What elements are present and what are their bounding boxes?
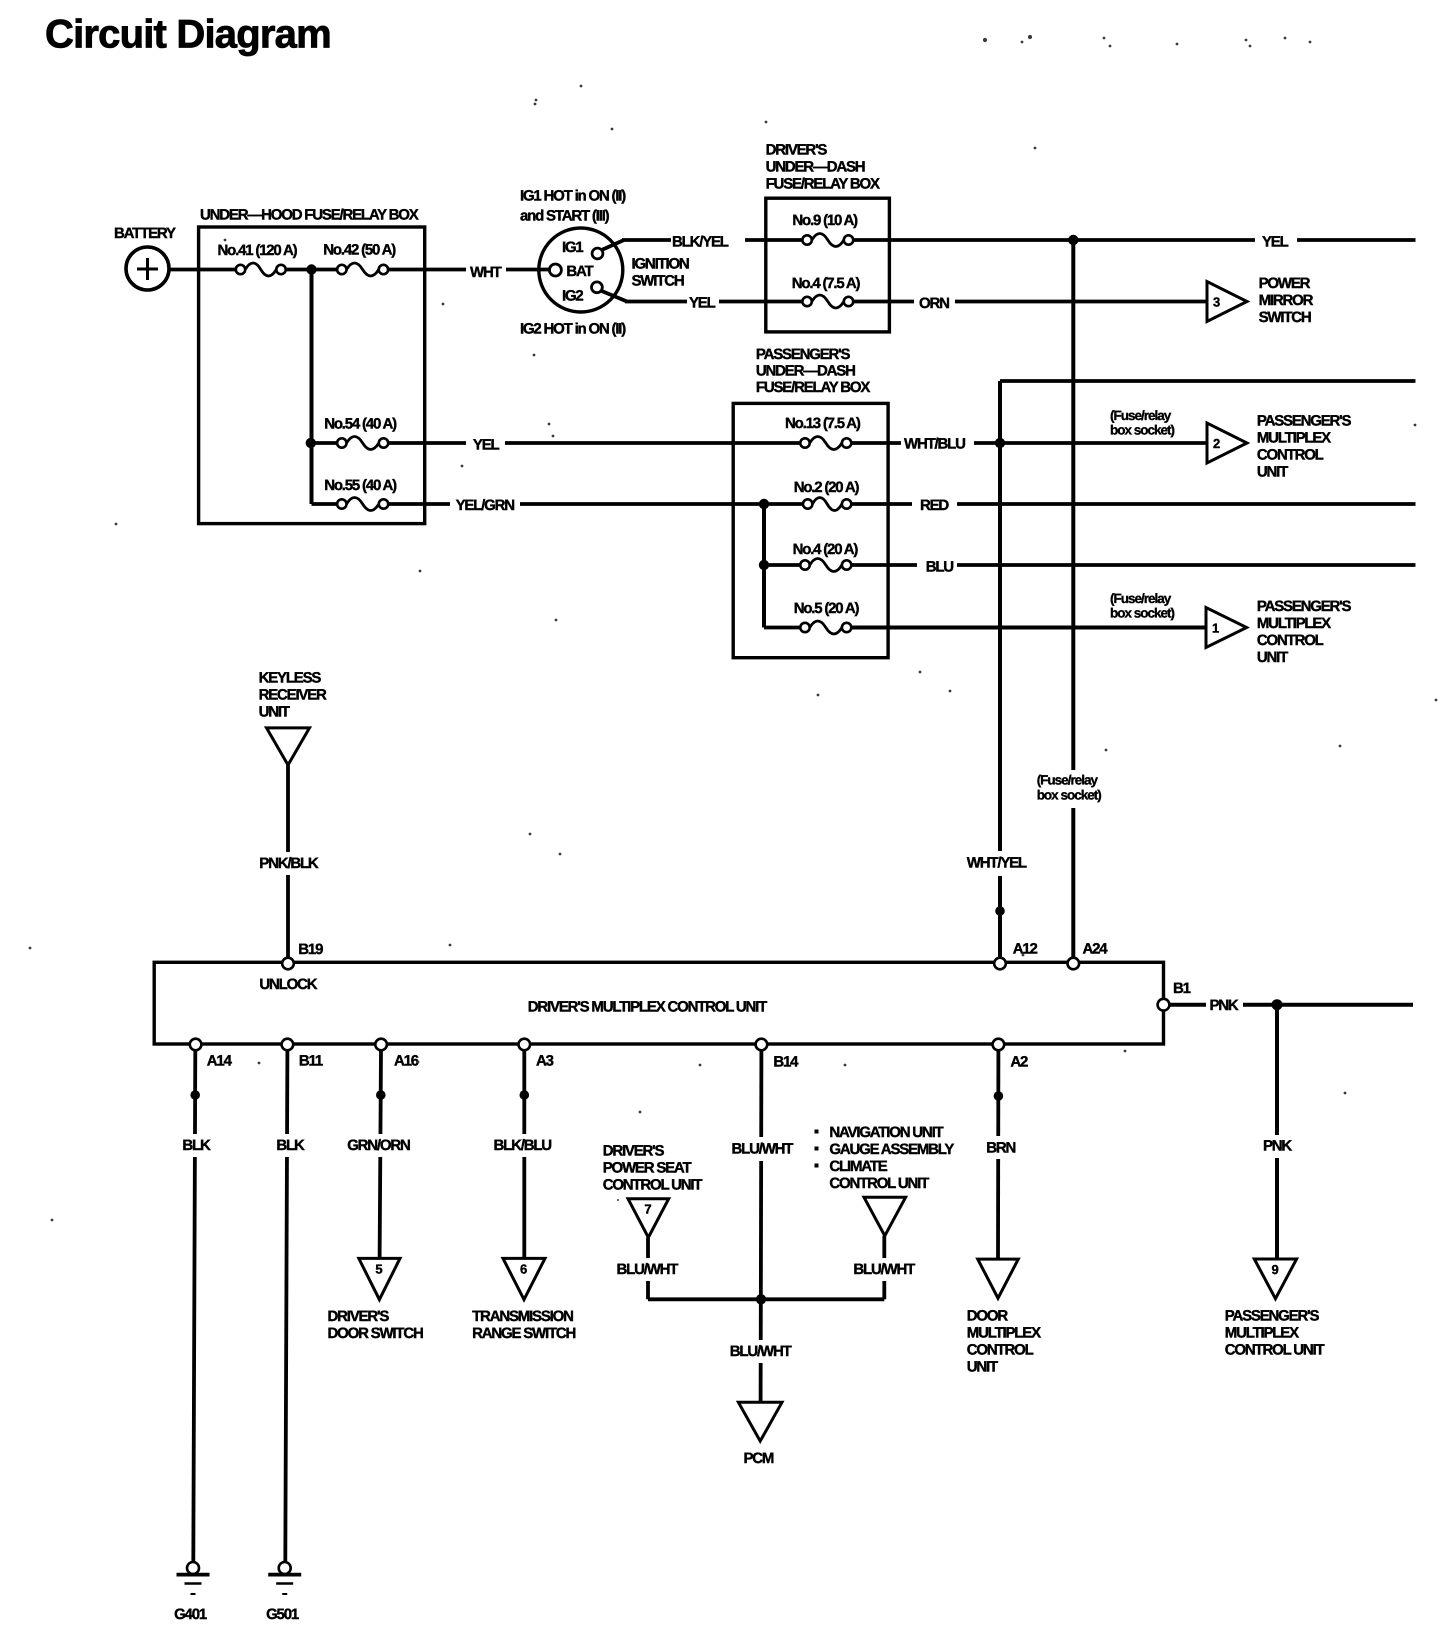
svg-text:FUSE/RELAY BOX: FUSE/RELAY BOX: [756, 379, 870, 396]
wire PNK vertical to triangle 9: [1275, 1005, 1279, 1260]
svg-text:PNK: PNK: [1210, 997, 1239, 1014]
svg-text:A14: A14: [207, 1052, 233, 1069]
connector B11: [282, 1039, 294, 1051]
connector A24: [1068, 958, 1080, 970]
PCM triangle: [738, 1402, 782, 1441]
svg-text:MIRROR: MIRROR: [1259, 292, 1314, 309]
svg-text:BATTERY: BATTERY: [114, 225, 176, 242]
wire horizontal y381 to right edge: [1000, 379, 1416, 383]
triangle 3 power mirror switch: [1207, 282, 1247, 322]
svg-text:CONTROL UNIT: CONTROL UNIT: [1225, 1341, 1325, 1358]
wire IG2 to YEL label: [625, 300, 687, 304]
wire bus to fuse No.5: [764, 626, 800, 630]
connector A16: [375, 1039, 387, 1051]
svg-text:PASSENGER'S: PASSENGER'S: [1257, 598, 1352, 615]
connector A12: [994, 958, 1006, 970]
wire A16 to triangle 5: [380, 1050, 381, 1259]
node junction A2: [994, 1091, 1004, 1101]
svg-text:BLU/WHT: BLU/WHT: [732, 1140, 794, 1157]
svg-text:No.9 (10 A): No.9 (10 A): [792, 212, 858, 229]
svg-text:2: 2: [1213, 436, 1220, 451]
svg-text:IG1 HOT in ON (II): IG1 HOT in ON (II): [520, 187, 626, 204]
svg-text:6: 6: [520, 1261, 527, 1276]
wire fuse No.4 to BLU label: [851, 563, 917, 567]
svg-text:YEL: YEL: [1262, 234, 1289, 251]
svg-text:UNDER—DASH: UNDER—DASH: [766, 159, 865, 176]
svg-text:B11: B11: [299, 1052, 323, 1069]
wire WHT/BLU label to triangle 2: [974, 441, 1207, 445]
svg-text:No.42 (50 A): No.42 (50 A): [323, 241, 396, 258]
wire fuse No.4 to ORN label: [853, 300, 914, 304]
svg-text:1: 1: [1212, 621, 1219, 636]
wire IG1 to BLK/YEL label: [622, 238, 671, 242]
svg-text:CONTROL UNIT: CONTROL UNIT: [829, 1175, 929, 1192]
triangle 2 passenger's multiplex control unit: [1207, 423, 1247, 463]
connector A14: [190, 1039, 202, 1051]
svg-text:CONTROL UNIT: CONTROL UNIT: [603, 1177, 703, 1194]
svg-text:CONTROL: CONTROL: [967, 1342, 1034, 1359]
svg-text:PASSENGER'S: PASSENGER'S: [756, 346, 851, 363]
wire bus to fuse No.54: [312, 441, 338, 445]
wire YEL label to fuse No.13: [505, 441, 800, 445]
node junction WHT/BLU: [995, 438, 1005, 448]
svg-text:PNK/BLK: PNK/BLK: [259, 855, 319, 872]
battery B1 positive terminal: [126, 247, 169, 290]
svg-text:Circuit Diagram: Circuit Diagram: [45, 13, 331, 57]
svg-text:IG2: IG2: [562, 287, 583, 304]
wire nav triangle to junction: [882, 1236, 886, 1300]
wire fuse No.41 to fuse No.42: [286, 268, 338, 272]
svg-text:DOOR SWITCH: DOOR SWITCH: [328, 1325, 423, 1342]
svg-text:POWER: POWER: [1259, 275, 1311, 292]
svg-text:BRN: BRN: [986, 1139, 1015, 1156]
svg-text:ORN: ORN: [919, 295, 949, 312]
wire IG1 diagonal: [601, 240, 625, 251]
svg-text:IG2 HOT in ON (II): IG2 HOT in ON (II): [520, 320, 626, 337]
node junction BLU/WHT: [756, 1294, 766, 1304]
triangle 1 passenger's multiplex control unit: [1206, 608, 1247, 648]
svg-text:PASSENGER'S: PASSENGER'S: [1257, 413, 1352, 430]
svg-text:DRIVER'S: DRIVER'S: [328, 1308, 390, 1325]
node junction PNK: [1272, 999, 1283, 1010]
svg-text:box socket): box socket): [1110, 422, 1175, 437]
svg-text:G401: G401: [174, 1606, 207, 1623]
svg-text:YEL: YEL: [689, 295, 716, 312]
svg-text:UNIT: UNIT: [967, 1359, 998, 1376]
svg-text:DRIVER'S MULTIPLEX CONTROL UNI: DRIVER'S MULTIPLEX CONTROL UNIT: [528, 998, 767, 1015]
svg-text:A2: A2: [1010, 1053, 1028, 1070]
fuse No.5 (20 A): [800, 621, 851, 634]
svg-text:WHT/BLU: WHT/BLU: [904, 435, 965, 452]
wire A2 to door multiplex triangle: [996, 1050, 1000, 1259]
svg-text:GAUGE ASSEMBLY: GAUGE ASSEMBLY: [829, 1141, 954, 1158]
svg-text:WHT/YEL: WHT/YEL: [967, 854, 1027, 871]
wire B14 down to PCM: [759, 1050, 764, 1402]
wire vertical fuse-relay-socket A24: [1071, 240, 1075, 958]
svg-text:DRIVER'S: DRIVER'S: [603, 1143, 665, 1160]
connector B1: [1158, 999, 1170, 1011]
svg-text:CONTROL: CONTROL: [1257, 632, 1324, 649]
svg-text:A24: A24: [1083, 941, 1109, 958]
node junction passenger box No.2: [759, 499, 769, 509]
wire fuse No.5 to triangle 1: [851, 626, 1206, 630]
svg-text:A3: A3: [536, 1052, 554, 1069]
svg-text:No.41 (120 A): No.41 (120 A): [218, 242, 298, 259]
svg-text:BLU: BLU: [926, 559, 954, 576]
wire fuse No.54 to YEL label: [388, 441, 466, 445]
keyless receiver unit triangle: [267, 728, 310, 765]
svg-text:CONTROL: CONTROL: [1257, 447, 1324, 464]
svg-text:MULTIPLEX: MULTIPLEX: [967, 1325, 1041, 1342]
connector A3: [519, 1039, 531, 1051]
wire RED label to right edge: [957, 502, 1416, 506]
svg-text:UNDER—DASH: UNDER—DASH: [756, 363, 855, 380]
svg-text:(Fuse/relay: (Fuse/relay: [1037, 773, 1099, 788]
wire fuse No.9 to YEL label: [853, 238, 1255, 242]
connector A2: [993, 1039, 1005, 1051]
wire vertical WHT/YEL A12: [998, 381, 1002, 958]
svg-text:BLK: BLK: [182, 1137, 211, 1154]
passenger's under-dash fuse/relay box: [733, 403, 888, 657]
label navigation gauge climate list: [815, 1130, 819, 1168]
triangle 7 driver's power seat control unit: [628, 1199, 669, 1238]
triangle 6 transmission range switch: [503, 1258, 545, 1299]
svg-text:DOOR: DOOR: [967, 1308, 1009, 1325]
fuse No.54 (40 A): [337, 437, 388, 450]
svg-text:GRN/ORN: GRN/ORN: [347, 1137, 410, 1154]
svg-text:BLK: BLK: [276, 1137, 305, 1154]
svg-text:YEL: YEL: [473, 436, 500, 453]
svg-text:BLU/WHT: BLU/WHT: [853, 1261, 915, 1278]
svg-text:IG1: IG1: [562, 239, 583, 256]
svg-text:No.55 (40 A): No.55 (40 A): [324, 477, 397, 494]
triangle 5 driver's door switch: [359, 1258, 400, 1299]
scan noise: [29, 35, 1438, 1222]
svg-text:(Fuse/relay: (Fuse/relay: [1110, 408, 1172, 423]
fuse No.41 (120 A): [236, 263, 286, 276]
ground G401: [177, 1562, 210, 1594]
node junction No.54: [306, 438, 316, 448]
svg-text:BAT: BAT: [566, 263, 593, 280]
svg-text:box socket): box socket): [1037, 788, 1102, 803]
svg-text:YEL/GRN: YEL/GRN: [456, 497, 515, 514]
svg-text:No.5 (20 A): No.5 (20 A): [794, 600, 860, 617]
wire fuse No.42 to WHT label: [388, 268, 466, 272]
svg-text:RED: RED: [920, 497, 949, 514]
node junction under-hood bus: [306, 264, 316, 274]
svg-text:PASSENGER'S: PASSENGER'S: [1225, 1307, 1320, 1324]
svg-text:MULTIPLEX: MULTIPLEX: [1257, 430, 1331, 447]
svg-text:G501: G501: [266, 1606, 299, 1623]
ignition switch: [539, 228, 623, 312]
wire ORN label to power mirror switch triangle: [955, 300, 1207, 304]
svg-text:RANGE SWITCH: RANGE SWITCH: [472, 1325, 575, 1342]
connector B19: [282, 958, 294, 970]
wire passenger box vertical bus: [762, 504, 766, 628]
svg-text:KEYLESS: KEYLESS: [259, 670, 322, 687]
wire WHT label to BAT pin: [506, 268, 550, 272]
wire YEL/GRN label to fuse No.2: [520, 502, 803, 506]
svg-text:A12: A12: [1013, 941, 1038, 958]
svg-text:7: 7: [644, 1202, 651, 1217]
svg-text:No.4 (20 A): No.4 (20 A): [793, 541, 859, 558]
label gap rects: [1030, 770, 1113, 808]
svg-text:and START (III): and START (III): [520, 207, 610, 224]
wire IG2 diagonal: [601, 291, 628, 302]
node junction WHT/YEL: [995, 906, 1005, 916]
wire under-hood vertical bus: [310, 270, 314, 505]
fuse No.2 (20 A): [803, 498, 851, 511]
navigation/gauge/climate triangle: [864, 1197, 906, 1236]
node junction passenger box No.4: [759, 560, 769, 570]
node junction A14: [190, 1090, 200, 1100]
svg-text:CLIMATE: CLIMATE: [829, 1158, 887, 1175]
svg-text:TRANSMISSION: TRANSMISSION: [472, 1308, 573, 1325]
svg-text:PCM: PCM: [744, 1450, 774, 1467]
svg-text:BLK/YEL: BLK/YEL: [672, 234, 729, 251]
svg-text:BLU/WHT: BLU/WHT: [730, 1343, 792, 1360]
door multiplex control unit triangle: [978, 1259, 1019, 1298]
svg-text:BLU/WHT: BLU/WHT: [617, 1261, 679, 1278]
wire PNK label to right edge: [1243, 1003, 1413, 1007]
wire A14 to ground G401: [193, 1050, 195, 1562]
fuse No.55 (40 A): [337, 498, 388, 511]
svg-text:NAVIGATION UNIT: NAVIGATION UNIT: [829, 1124, 943, 1141]
wire YEL label to right edge: [1297, 238, 1416, 242]
svg-text:RECEIVER: RECEIVER: [259, 687, 327, 704]
fuse No.13 (7.5 A): [800, 437, 851, 450]
connector B14: [756, 1039, 768, 1051]
svg-text:UNIT: UNIT: [259, 704, 290, 721]
svg-text:No.13 (7.5 A): No.13 (7.5 A): [785, 415, 861, 432]
svg-text:No.54 (40 A): No.54 (40 A): [324, 415, 397, 432]
svg-text:SWITCH: SWITCH: [1259, 309, 1311, 326]
fuse No.4 (7.5 A): [802, 295, 853, 308]
wire fuse No.2 to RED label: [851, 502, 912, 506]
svg-text:POWER SEAT: POWER SEAT: [603, 1160, 692, 1177]
svg-text:UNLOCK: UNLOCK: [259, 976, 317, 993]
svg-text:(Fuse/relay: (Fuse/relay: [1110, 591, 1172, 606]
wire YEL label to fuse No.4 driver box: [719, 300, 802, 304]
wire fuse No.55 to YEL/GRN label: [388, 502, 450, 506]
wire battery to fuse No.41: [169, 268, 236, 272]
svg-text:5: 5: [375, 1261, 382, 1276]
node junction A16: [376, 1090, 386, 1100]
wire fuse No.13 to WHT/BLU label: [851, 441, 901, 445]
wire keyless receiver to B19: [286, 765, 290, 958]
svg-text:No.4 (7.5 A): No.4 (7.5 A): [792, 275, 861, 292]
svg-text:UNDER—HOOD FUSE/RELAY BOX: UNDER—HOOD FUSE/RELAY BOX: [200, 207, 419, 224]
svg-text:9: 9: [1271, 1262, 1278, 1277]
svg-text:UNIT: UNIT: [1257, 649, 1288, 666]
svg-text:MULTIPLEX: MULTIPLEX: [1257, 615, 1331, 632]
wire bus to fuse No.4 passenger box: [764, 563, 800, 567]
triangle 9 passenger's multiplex control unit: [1254, 1259, 1296, 1299]
wire BLK/YEL label to fuse No.9: [745, 238, 802, 242]
wire B11 to ground G501: [285, 1050, 287, 1562]
svg-text:IGNITION: IGNITION: [632, 256, 689, 273]
wire A3 to triangle 6: [522, 1050, 526, 1259]
svg-text:B1: B1: [1173, 980, 1191, 997]
svg-text:No.2 (20 A): No.2 (20 A): [794, 479, 860, 496]
svg-text:A16: A16: [394, 1052, 419, 1069]
svg-text:WHT: WHT: [470, 264, 502, 281]
svg-text:box socket): box socket): [1110, 606, 1175, 621]
driver's multiplex control unit box: [154, 962, 1163, 1044]
fuse No.4 (20 A): [800, 559, 851, 572]
svg-text:FUSE/RELAY BOX: FUSE/RELAY BOX: [766, 176, 880, 193]
under-hood fuse/relay box: [199, 227, 425, 524]
wire triangle 7 to junction: [646, 1238, 650, 1300]
svg-text:BLK/BLU: BLK/BLU: [494, 1137, 552, 1154]
wire bus to fuse No.55: [312, 502, 338, 506]
node junction YEL top: [1068, 235, 1078, 245]
svg-text:MULTIPLEX: MULTIPLEX: [1225, 1324, 1299, 1341]
svg-text:UNIT: UNIT: [1257, 464, 1288, 481]
wire B1 to PNK label: [1170, 1003, 1207, 1007]
fuse No.9 (10 A): [802, 234, 853, 247]
svg-text:PNK: PNK: [1263, 1138, 1292, 1155]
node junction A3: [520, 1090, 530, 1100]
wire BLU/WHT horizontal: [648, 1297, 884, 1301]
ground G501: [268, 1562, 301, 1594]
svg-text:B14: B14: [773, 1053, 799, 1070]
fuse No.42 (50 A): [337, 263, 388, 276]
wire BLU label to right edge: [957, 563, 1416, 567]
svg-text:DRIVER'S: DRIVER'S: [766, 141, 828, 158]
svg-text:SWITCH: SWITCH: [632, 273, 684, 290]
svg-text:3: 3: [1213, 295, 1220, 310]
svg-text:B19: B19: [298, 941, 323, 958]
driver's under-dash fuse/relay box: [766, 198, 890, 332]
